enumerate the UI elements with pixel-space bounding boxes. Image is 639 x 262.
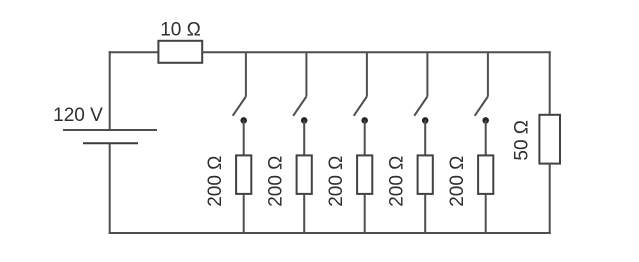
wire resistor R3 to bottom bus	[303, 194, 305, 233]
svg-text:50 Ω: 50 Ω	[512, 120, 533, 161]
switch S1 terminal dot	[240, 117, 247, 124]
resistor R2 body	[236, 155, 251, 194]
wire left rail lower	[109, 143, 111, 234]
battery V1 negative plate	[83, 142, 138, 144]
wire resistor R4 to bottom bus	[364, 194, 366, 233]
resistor R3 body	[297, 155, 312, 194]
wire branch 3 top stub	[366, 52, 368, 96]
wire right rail lower	[549, 164, 551, 234]
wire branch 2 top stub	[305, 52, 307, 96]
svg-text:200 Ω: 200 Ω	[266, 156, 287, 207]
wire resistor R5 to bottom bus	[424, 194, 426, 233]
wire bottom bus	[109, 232, 551, 234]
svg-text:200 Ω: 200 Ω	[447, 156, 468, 207]
wire top bus right segment	[202, 51, 551, 53]
switch S3 blade	[354, 97, 367, 116]
battery V1 positive plate	[63, 129, 157, 131]
switch S5 blade	[475, 97, 488, 116]
wire branch 5 top stub	[487, 52, 489, 96]
switch S4 blade	[414, 97, 427, 116]
svg-text:10 Ω: 10 Ω	[160, 20, 201, 41]
resistor R6 body	[478, 155, 493, 194]
svg-text:120 V: 120 V	[53, 105, 103, 126]
svg-text:200 Ω: 200 Ω	[387, 156, 408, 207]
wire switch S3 to resistor R4	[364, 120, 366, 155]
wire branch 1 top stub	[245, 52, 247, 96]
switch S4 terminal dot	[422, 117, 429, 124]
wire switch S5 to resistor R6	[485, 120, 487, 155]
resistor R1 body	[158, 41, 202, 63]
switch S2 blade	[293, 97, 306, 116]
switch S3 terminal dot	[361, 117, 368, 124]
wire resistor R6 to bottom bus	[485, 194, 487, 233]
switch S1 blade	[233, 97, 246, 116]
svg-text:200 Ω: 200 Ω	[326, 156, 347, 207]
wire branch 4 top stub	[426, 52, 428, 96]
resistor R4 body	[357, 155, 372, 194]
svg-text:200 Ω: 200 Ω	[205, 156, 226, 207]
wire top bus left segment	[109, 51, 159, 53]
wire right rail upper	[549, 51, 551, 115]
wire resistor R2 to bottom bus	[243, 194, 245, 233]
wire switch S2 to resistor R3	[303, 120, 305, 155]
resistor R7 body	[539, 115, 560, 164]
wire left rail upper	[109, 51, 111, 130]
resistor R5 body	[418, 155, 433, 194]
wire switch S4 to resistor R5	[424, 120, 426, 155]
wire switch S1 to resistor R2	[243, 120, 245, 155]
switch S5 terminal dot	[482, 117, 489, 124]
switch S2 terminal dot	[301, 117, 308, 124]
